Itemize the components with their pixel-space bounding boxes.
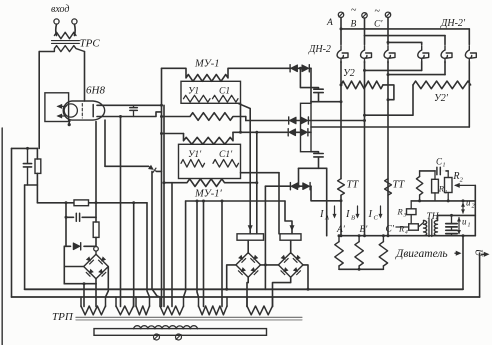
wire: [365, 85, 414, 115]
diode VD3: [302, 65, 309, 72]
wire cathode stub: [68, 120, 70, 124]
wire: [227, 265, 236, 289]
winding MU-1' bottom: [164, 179, 257, 187]
wire left outer rail: [11, 148, 13, 297]
wire: [340, 195, 342, 236]
capacitor C1: [436, 167, 438, 174]
wire: [152, 171, 160, 297]
svg-text:ТРП: ТРП: [52, 311, 74, 323]
wire: [256, 132, 258, 234]
wire: [285, 201, 292, 234]
box (diode block): [301, 103, 312, 151]
wire: [238, 103, 250, 234]
node: phase B terminal: [362, 13, 367, 18]
wire: [421, 42, 423, 44]
bridge rectifier VD1: [84, 254, 109, 279]
diode D-left: [64, 245, 70, 247]
winding U2': [413, 81, 471, 89]
wire: [260, 264, 265, 266]
wire: [299, 167, 327, 169]
svg-text:Двигатель: Двигатель: [395, 248, 448, 260]
wire: [365, 35, 446, 37]
wire: [83, 284, 85, 307]
svg-text:ТТ: ТТ: [347, 180, 360, 191]
node circle above bridge: [94, 247, 99, 252]
wire: [437, 215, 439, 220]
transformer TPC primary winding: [54, 32, 76, 38]
wire: [421, 62, 423, 71]
wire left inner rail: [24, 185, 26, 289]
diode (small): [148, 164, 157, 173]
wire: [247, 240, 249, 252]
wire: [303, 265, 308, 289]
choke DN winding 2: [364, 46, 366, 50]
wire: [423, 221, 425, 223]
svg-text:1: 1: [468, 223, 471, 229]
node: phase A terminal: [338, 12, 343, 17]
bridge rectifier VD11: [278, 253, 303, 278]
wire: [38, 52, 40, 149]
bridge rectifier VD10: [236, 253, 261, 278]
potentiometer winding: [134, 326, 198, 329]
wire: [65, 203, 67, 247]
winding box (bridge 2 feed): [237, 234, 264, 240]
svg-text:u: u: [462, 217, 467, 227]
transformer TPC secondary winding: [39, 46, 84, 52]
diode VD2: [291, 65, 298, 72]
svg-text:u: u: [466, 198, 471, 208]
wire: [444, 36, 446, 45]
svg-text:2: 2: [460, 177, 464, 184]
potentiometer tap: [154, 334, 160, 340]
wire: [171, 183, 173, 307]
wire: [63, 246, 65, 283]
wire: [197, 201, 199, 297]
wire bus A'B'C': [341, 235, 475, 237]
wire: [438, 214, 476, 216]
resistor (vertical): [95, 217, 97, 222]
wire: [240, 103, 242, 132]
svg-text:В′: В′: [360, 225, 369, 235]
capacitor bank: [451, 215, 453, 223]
diode VD7: [301, 129, 308, 136]
transformer TRP winding end: [115, 297, 117, 307]
svg-text:2: 2: [472, 204, 475, 210]
resistor (load): [338, 236, 340, 242]
wire: [278, 173, 280, 234]
capacitor: [311, 152, 319, 153]
resistor R2: [447, 171, 449, 178]
svg-text:С: С: [374, 215, 379, 222]
arrow: [248, 225, 253, 231]
choke DN winding 5: [444, 46, 446, 50]
svg-text:С1: С1: [219, 87, 230, 97]
current transformer TT (phase A): [338, 179, 345, 196]
block box left of tube: [45, 93, 69, 122]
wire rail: [163, 105, 165, 306]
capacitor: [311, 88, 319, 89]
resistor (vertical, left): [36, 148, 38, 159]
resistor R1: [434, 171, 436, 179]
wire: [162, 133, 184, 135]
wire phase A: [340, 18, 342, 45]
wire: [298, 168, 300, 186]
diode VD8: [291, 183, 298, 190]
choke DN winding 4: [421, 46, 423, 50]
svg-text:3: 3: [403, 213, 407, 219]
winding U1: [184, 95, 211, 102]
wire: [241, 172, 280, 174]
transformer TRP winding end: [135, 297, 137, 307]
svg-text:ДН-2: ДН-2: [308, 44, 331, 55]
svg-text:С1′: С1′: [219, 150, 233, 160]
winding MU-1 top: [162, 68, 291, 81]
capacitor (tube coupling): [133, 105, 135, 107]
wire: [186, 200, 285, 202]
wire: [184, 201, 186, 297]
svg-text:В: В: [351, 215, 355, 222]
wire: [444, 62, 446, 75]
wire: [12, 147, 38, 149]
wire: [104, 120, 106, 166]
wire: [273, 277, 291, 306]
winding U1': [181, 160, 205, 168]
box U1' C1': [179, 144, 241, 178]
svg-text:I: I: [345, 209, 350, 220]
wiper arrow R2: [456, 184, 476, 186]
svg-text:вход: вход: [51, 4, 69, 15]
wire: [64, 283, 96, 285]
wire: [310, 68, 312, 103]
voltage arrows u1: [458, 218, 460, 234]
choke DN winding 1: [340, 46, 342, 50]
svg-text:В: В: [351, 20, 357, 30]
wire: [133, 203, 135, 307]
svg-text:4: 4: [405, 229, 408, 236]
tube 6N8 envelope: [63, 101, 104, 120]
page edge (scan artifact): [1, 128, 3, 345]
wire plate: [97, 104, 162, 106]
wire: [297, 185, 303, 187]
wire row1: [246, 120, 288, 122]
wire: [311, 126, 469, 128]
capacitor C-left: [27, 148, 29, 163]
svg-text:I: I: [368, 209, 373, 220]
svg-text:~: ~: [375, 6, 381, 17]
svg-text:У1: У1: [188, 87, 199, 97]
inductor (vertical zigzag): [419, 171, 421, 177]
svg-text:I: I: [319, 209, 324, 220]
transformer TRP winding end: [159, 297, 161, 307]
wire: [37, 202, 147, 204]
choke DN winding 6: [468, 46, 470, 50]
wire rail: [161, 68, 163, 306]
svg-text:R: R: [398, 224, 405, 234]
svg-text:~: ~: [351, 5, 357, 16]
wire: [95, 279, 97, 284]
winding MU-1 control (middle): [162, 113, 246, 121]
wire: [311, 101, 341, 103]
resistor R4: [409, 224, 419, 230]
wire phase B lower: [364, 62, 366, 236]
diode VD5: [301, 117, 308, 124]
wire row2: [233, 131, 287, 133]
transformer TH right coil: [434, 221, 437, 236]
potentiometer body: [94, 329, 267, 336]
arrow into box (cathode ray): [58, 115, 66, 117]
svg-text:ТРС: ТРС: [80, 38, 101, 50]
transformer TRP core: [76, 316, 302, 318]
transformer TH core: [428, 220, 430, 237]
transformer TRP winding end: [80, 297, 82, 307]
wire: [468, 62, 470, 85]
wire: [468, 29, 470, 45]
choke DN winding 3: [387, 46, 389, 50]
diode VD9: [303, 183, 310, 190]
wire: [105, 165, 149, 167]
wire: [55, 24, 58, 35]
arrow into box (cathode ray): [58, 105, 66, 107]
wire: [264, 186, 266, 289]
wire: [462, 236, 464, 290]
wire: [25, 184, 38, 186]
wire: [388, 41, 422, 43]
wire phase C lower: [387, 62, 389, 236]
wire phase B: [364, 18, 366, 35]
voltage arrows u2: [462, 203, 464, 213]
wire bus inner: [25, 288, 463, 290]
arrow: [289, 225, 294, 231]
resistor R3: [410, 201, 412, 209]
wire: [97, 112, 162, 117]
wire: [326, 168, 328, 235]
resistor (load): [382, 236, 384, 242]
wire phase C: [387, 18, 389, 45]
wire phase A lower: [340, 62, 342, 179]
diode VD4: [290, 117, 297, 124]
svg-text:У2′: У2′: [434, 93, 449, 104]
svg-text:МУ-1′: МУ-1′: [194, 189, 223, 200]
capacitor: [75, 213, 77, 221]
svg-text:А: А: [326, 18, 333, 28]
diode VD6: [289, 129, 296, 136]
wire: [120, 117, 122, 307]
wire: [411, 200, 475, 202]
resistor (load): [358, 236, 360, 242]
wire: [265, 264, 278, 266]
wire: [295, 120, 301, 122]
wire: [157, 170, 162, 172]
node: phase C terminal: [385, 12, 390, 17]
wire: [221, 201, 223, 307]
winding C1: [213, 95, 239, 102]
wire: [311, 186, 341, 201]
svg-text:У1′: У1′: [188, 150, 202, 160]
svg-text:6Н8: 6Н8: [86, 85, 105, 97]
arrow: [482, 253, 487, 255]
svg-text:R: R: [397, 207, 404, 217]
resistor (horizontal, left): [74, 200, 89, 206]
wire: [73, 24, 76, 35]
node: input terminals (вход): [54, 19, 59, 24]
wire: [95, 284, 97, 307]
wire: [245, 117, 247, 121]
wire: [479, 253, 481, 297]
svg-text:ДН-2′: ДН-2′: [440, 18, 466, 29]
svg-text:1: 1: [443, 163, 446, 169]
box U1 C1: [181, 81, 241, 103]
winding C1': [213, 160, 239, 168]
wire: [84, 52, 86, 102]
wire: [474, 185, 476, 235]
svg-text:С′: С′: [386, 225, 395, 235]
arrow: [455, 252, 460, 254]
wire: [339, 268, 383, 270]
wire: [69, 120, 71, 121]
wire: [95, 122, 97, 218]
svg-text:R: R: [452, 171, 459, 182]
wire: [66, 216, 74, 218]
wire: [295, 131, 301, 133]
wire: [64, 266, 84, 268]
wire DN-2' box top: [341, 28, 469, 30]
wire: [468, 85, 470, 127]
wire: [147, 203, 150, 297]
winding box (bridge 3 feed): [280, 234, 301, 240]
transformer TRP winding end: [198, 297, 200, 307]
wire: [383, 85, 394, 100]
wire: [290, 240, 292, 252]
wire: [420, 170, 435, 172]
wire bus outer: [12, 296, 480, 298]
potentiometer tap: [176, 334, 182, 340]
winding MU-1' top: [184, 132, 234, 144]
svg-text:С′: С′: [374, 20, 383, 30]
wire: [247, 277, 248, 306]
wire: [297, 67, 303, 69]
wire: [203, 201, 205, 307]
svg-text:U: U: [473, 249, 484, 257]
current transformer TT (phase C): [385, 179, 392, 196]
wire: [106, 267, 109, 298]
transformer TRP winding end: [246, 297, 248, 307]
winding U2: [341, 81, 383, 89]
transformer TH left coil: [424, 221, 427, 236]
svg-text:МУ-1: МУ-1: [194, 59, 220, 70]
svg-text:А: А: [324, 215, 329, 222]
wire row3: [265, 185, 289, 187]
svg-text:ТТ: ТТ: [393, 180, 406, 191]
svg-text:А′: А′: [336, 225, 346, 235]
wire: [300, 68, 311, 87]
svg-text:У2: У2: [343, 68, 355, 79]
transformer TPC core: [52, 40, 80, 42]
